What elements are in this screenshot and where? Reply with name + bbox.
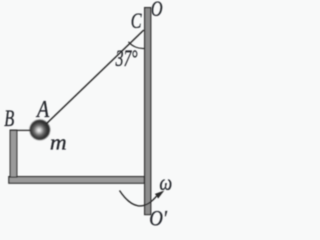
rod OO' (vertical rotating rod) — [145, 8, 151, 215]
string from C to ball A — [44, 30, 144, 126]
wall post B (left vertical) — [10, 130, 17, 177]
angle arc at C — [128, 42, 144, 49]
base bar (horizontal) — [9, 177, 145, 184]
rotation arrowhead — [155, 191, 164, 199]
svg-text:m: m — [50, 129, 67, 154]
svg-text:37°: 37° — [115, 46, 138, 72]
svg-text:B: B — [4, 106, 14, 131]
svg-text:A: A — [35, 97, 49, 123]
svg-text:ω: ω — [159, 170, 172, 195]
rotation arrow (omega) — [120, 191, 157, 206]
ball A (mass m) — [30, 120, 50, 140]
svg-text:O: O — [151, 0, 163, 21]
svg-text:O′: O′ — [149, 206, 168, 227]
svg-text:C: C — [131, 8, 142, 33]
wire: horizontal link from post B to ball — [10, 129, 36, 131]
